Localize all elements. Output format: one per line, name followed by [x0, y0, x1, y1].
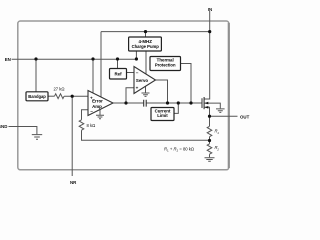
svg-text:8 kΩ: 8 kΩ: [87, 123, 96, 128]
svg-text:Servo: Servo: [136, 78, 149, 83]
svg-text:4-MHZ: 4-MHZ: [138, 39, 152, 44]
svg-text:2: 2: [216, 148, 219, 152]
svg-text:Protection: Protection: [155, 63, 176, 68]
svg-text:+: +: [136, 86, 139, 91]
svg-text:EN: EN: [5, 57, 11, 62]
svg-text:−: −: [90, 109, 93, 114]
svg-text:OUT: OUT: [240, 114, 250, 119]
svg-text:27 kΩ: 27 kΩ: [53, 87, 64, 92]
svg-text:NR: NR: [70, 180, 77, 185]
svg-text:Error: Error: [92, 99, 103, 104]
svg-text:−: −: [136, 71, 139, 76]
svg-text:Limit: Limit: [157, 113, 168, 118]
svg-text:Ref: Ref: [114, 72, 122, 77]
svg-text:IN: IN: [208, 7, 212, 12]
svg-text:GND: GND: [0, 124, 7, 129]
svg-text:Amp: Amp: [92, 104, 102, 109]
svg-text:Charge Pump: Charge Pump: [132, 44, 160, 49]
svg-text:Bandgap: Bandgap: [28, 94, 46, 99]
